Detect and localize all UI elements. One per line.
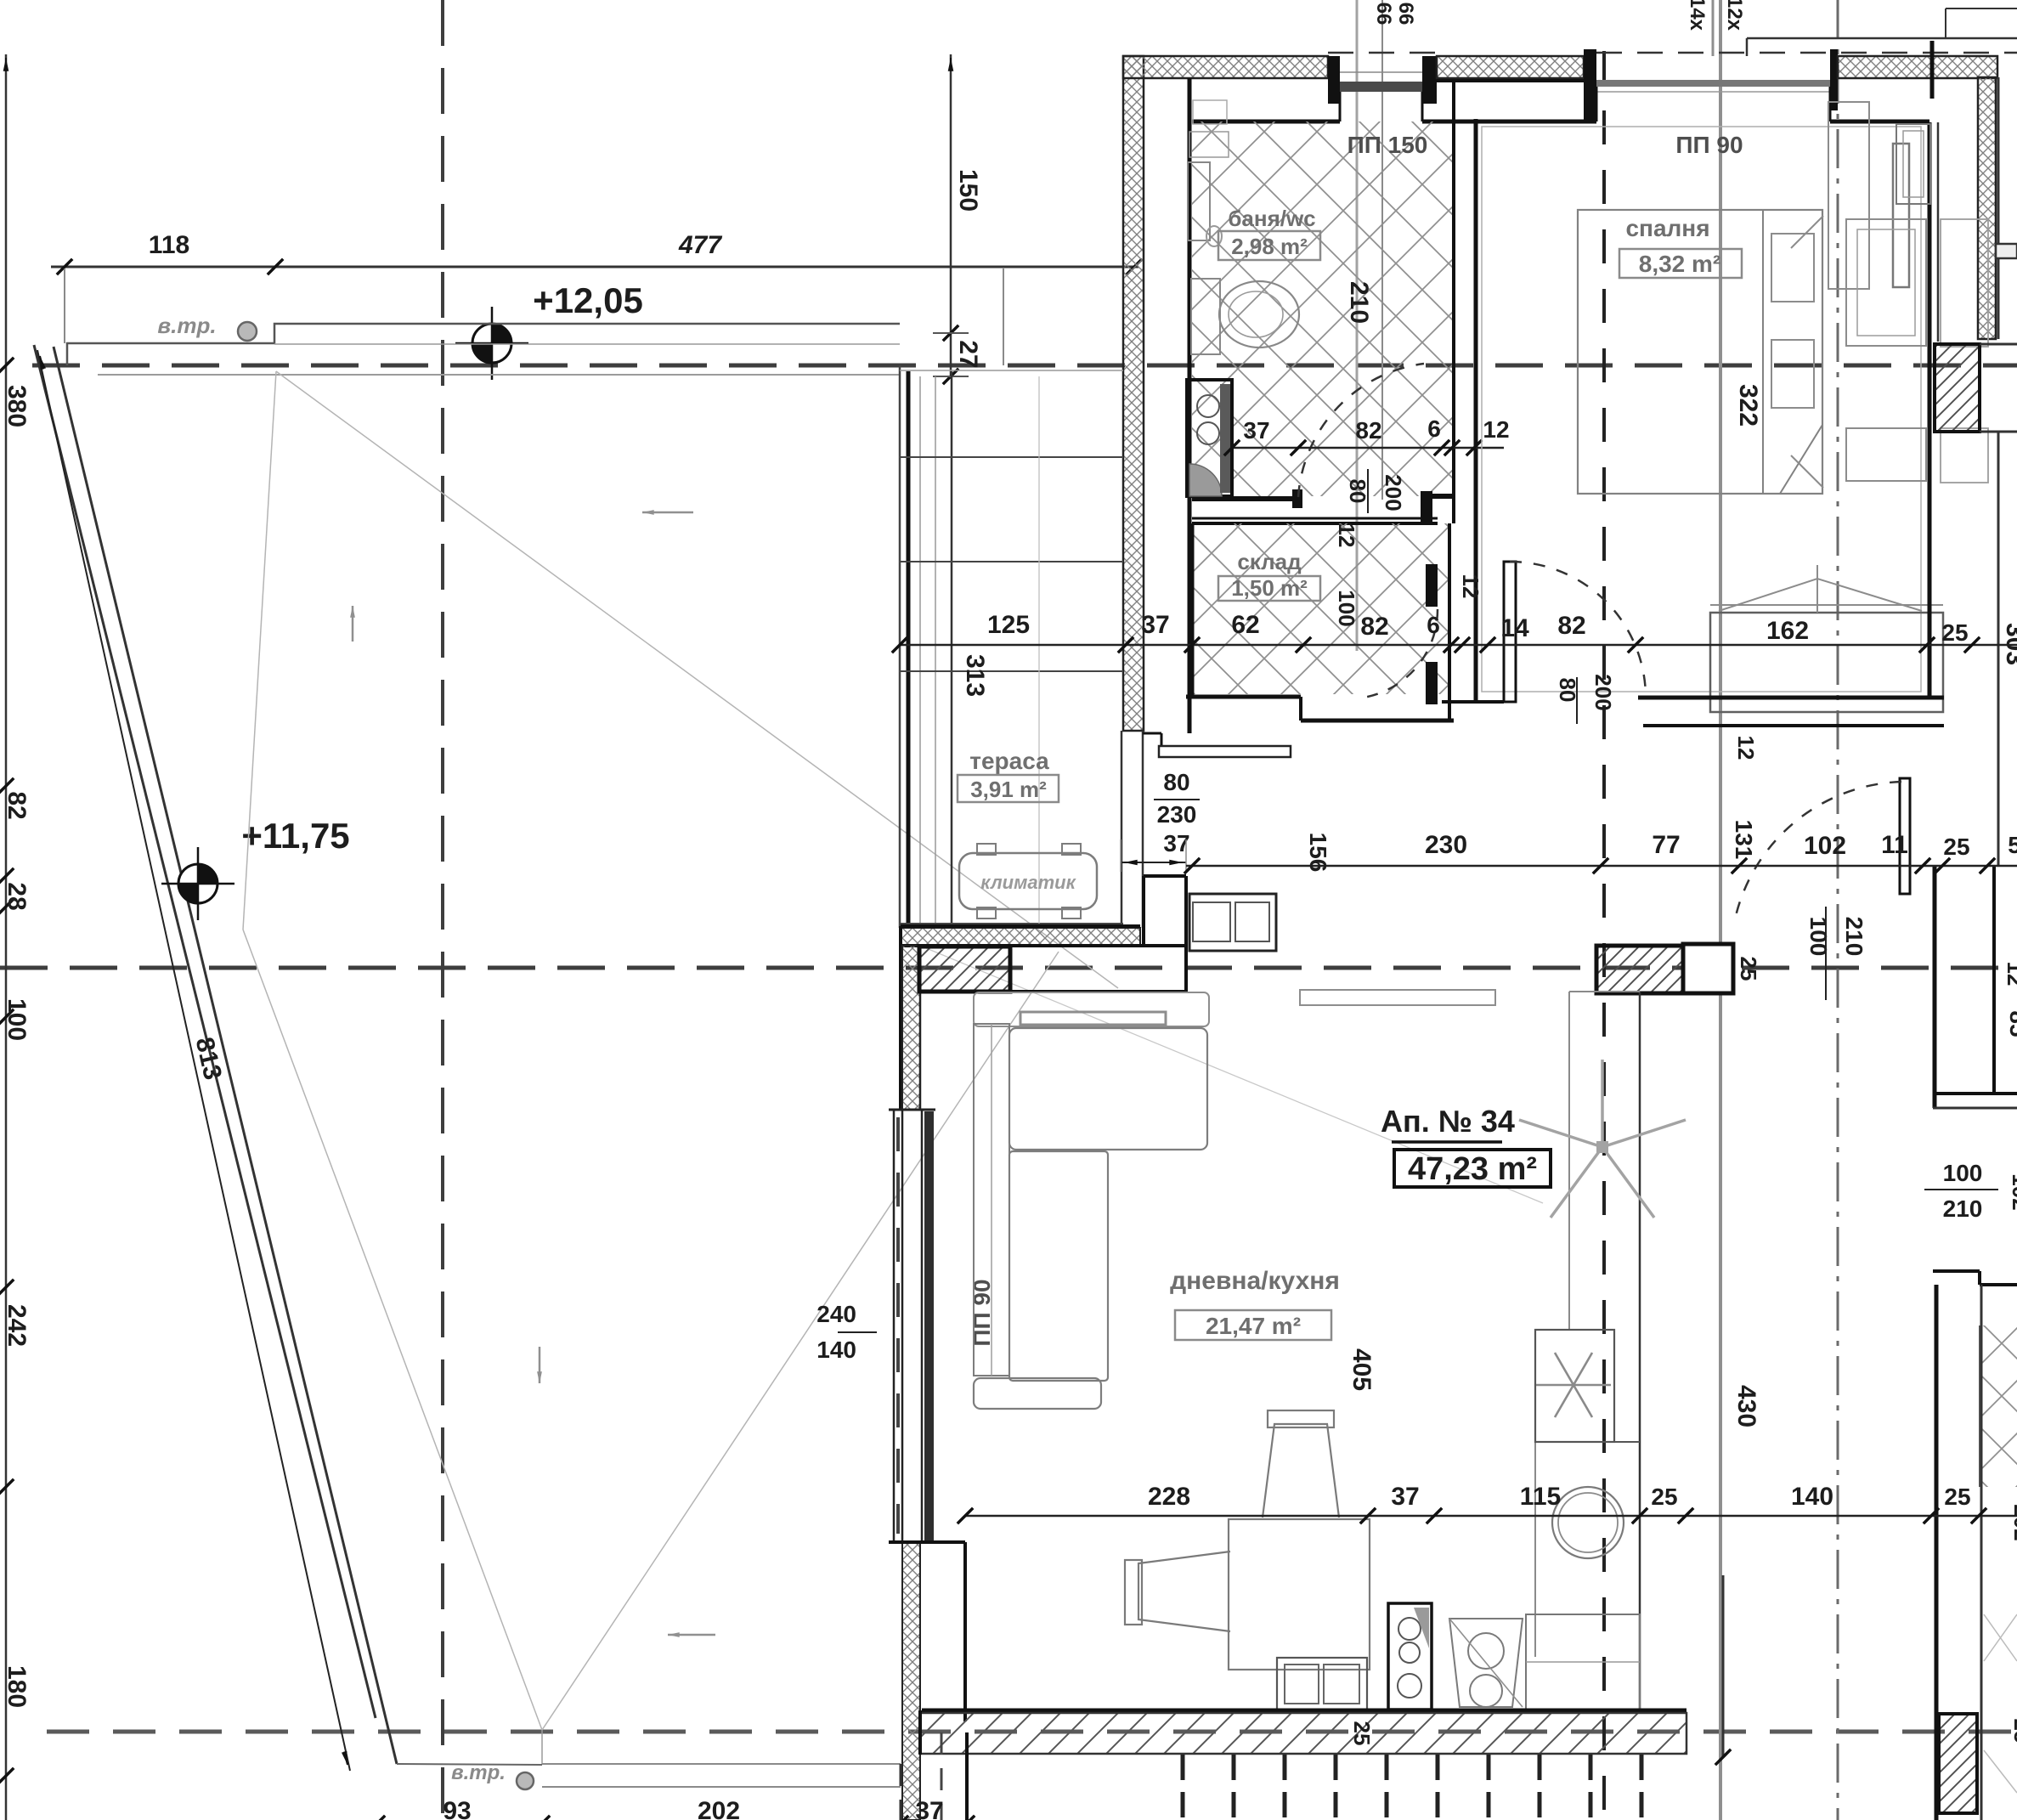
svg-text:25: 25 — [1349, 1721, 1375, 1746]
svg-text:8,32 m²: 8,32 m² — [1639, 251, 1721, 277]
svg-text:5: 5 — [2008, 832, 2017, 858]
svg-text:82: 82 — [1360, 613, 1388, 641]
svg-text:100: 100 — [1334, 590, 1359, 626]
svg-text:3,91 m²: 3,91 m² — [970, 777, 1047, 802]
svg-text:+12,05: +12,05 — [533, 280, 643, 320]
svg-text:80: 80 — [1345, 479, 1370, 504]
svg-text:21,47 m²: 21,47 m² — [1206, 1313, 1301, 1339]
svg-text:6: 6 — [1427, 612, 1440, 638]
svg-text:200: 200 — [1381, 474, 1406, 511]
svg-text:25: 25 — [1651, 1484, 1677, 1510]
svg-text:12: 12 — [1483, 416, 1509, 443]
svg-text:115: 115 — [1520, 1483, 1561, 1511]
svg-text:322: 322 — [1734, 384, 1762, 427]
svg-text:202: 202 — [698, 1797, 740, 1820]
svg-text:93: 93 — [443, 1797, 471, 1820]
svg-text:430: 430 — [1732, 1385, 1760, 1427]
svg-text:202: 202 — [2009, 1504, 2017, 1540]
svg-text:6: 6 — [1427, 415, 1441, 442]
svg-text:климатик: климатик — [980, 872, 1076, 893]
svg-text:25: 25 — [1736, 957, 1761, 981]
svg-text:150: 150 — [954, 169, 982, 212]
svg-text:100: 100 — [1805, 917, 1832, 957]
svg-text:14: 14 — [1500, 614, 1529, 642]
svg-text:12: 12 — [1733, 736, 1759, 760]
svg-text:131: 131 — [1731, 820, 1757, 860]
svg-text:28: 28 — [3, 882, 31, 910]
svg-text:25: 25 — [1941, 619, 1968, 646]
svg-text:140: 140 — [816, 1337, 856, 1363]
svg-text:242: 242 — [3, 1304, 31, 1347]
svg-text:12: 12 — [2003, 962, 2017, 986]
svg-text:210: 210 — [1841, 917, 1867, 957]
svg-text:82: 82 — [1557, 612, 1585, 640]
svg-text:Ап. № 34: Ап. № 34 — [1381, 1104, 1515, 1139]
svg-text:в.тр.: в.тр. — [157, 313, 216, 338]
svg-text:240: 240 — [816, 1301, 856, 1327]
svg-text:210: 210 — [1943, 1195, 1983, 1222]
svg-text:313: 313 — [961, 654, 989, 697]
svg-text:405: 405 — [1347, 1348, 1376, 1391]
svg-text:14x: 14x — [1686, 0, 1709, 31]
svg-text:тераса: тераса — [969, 748, 1049, 774]
svg-text:82: 82 — [3, 791, 31, 819]
svg-text:1,50 m²: 1,50 m² — [1231, 575, 1308, 601]
svg-text:37: 37 — [1141, 611, 1169, 639]
svg-text:230: 230 — [1425, 831, 1467, 859]
svg-text:баня/wc: баня/wc — [1228, 206, 1315, 231]
svg-text:118: 118 — [149, 231, 189, 259]
svg-text:125: 125 — [987, 611, 1030, 639]
svg-text:2,98 m²: 2,98 m² — [1231, 234, 1308, 259]
svg-text:230: 230 — [1157, 801, 1197, 828]
svg-text:37: 37 — [1243, 417, 1269, 444]
svg-text:102: 102 — [1804, 832, 1846, 860]
svg-text:380: 380 — [3, 385, 31, 427]
svg-text:162: 162 — [1766, 617, 1809, 645]
svg-text:156: 156 — [1305, 833, 1331, 873]
svg-text:25: 25 — [1943, 834, 1969, 860]
svg-text:66: 66 — [1372, 3, 1395, 25]
svg-text:100: 100 — [1943, 1160, 1983, 1186]
svg-text:47,23 m²: 47,23 m² — [1408, 1151, 1537, 1187]
svg-text:180: 180 — [3, 1665, 31, 1708]
svg-text:82: 82 — [1355, 417, 1381, 444]
svg-text:спалня: спалня — [1625, 215, 1709, 241]
svg-text:100: 100 — [3, 998, 31, 1041]
svg-text:77: 77 — [1652, 831, 1680, 859]
svg-text:477: 477 — [678, 231, 722, 259]
svg-text:228: 228 — [1148, 1483, 1190, 1511]
svg-text:62: 62 — [1231, 611, 1259, 639]
svg-text:11: 11 — [1881, 831, 1908, 859]
svg-text:в.тр.: в.тр. — [451, 1761, 506, 1784]
svg-text:склад: склад — [1237, 549, 1302, 574]
svg-text:200: 200 — [1590, 674, 1616, 710]
svg-text:210: 210 — [1345, 281, 1373, 324]
svg-text:+11,75: +11,75 — [241, 816, 349, 856]
svg-text:25: 25 — [2009, 1719, 2017, 1744]
svg-text:80: 80 — [1163, 769, 1189, 795]
svg-text:37: 37 — [915, 1797, 943, 1820]
svg-text:85: 85 — [2005, 1010, 2017, 1037]
svg-text:25: 25 — [1944, 1484, 1970, 1510]
svg-text:12: 12 — [1334, 523, 1359, 548]
svg-text:ПП 90: ПП 90 — [1675, 132, 1743, 158]
svg-text:66: 66 — [1394, 3, 1417, 25]
svg-text:дневна/кухня: дневна/кухня — [1170, 1267, 1340, 1295]
svg-text:12: 12 — [1458, 574, 1483, 599]
svg-text:27: 27 — [954, 340, 982, 368]
svg-text:37: 37 — [1391, 1483, 1419, 1511]
svg-text:102: 102 — [2008, 1173, 2017, 1210]
svg-text:140: 140 — [1791, 1483, 1833, 1511]
svg-text:ПП 150: ПП 150 — [1347, 132, 1428, 158]
svg-text:12x: 12x — [1723, 0, 1746, 31]
